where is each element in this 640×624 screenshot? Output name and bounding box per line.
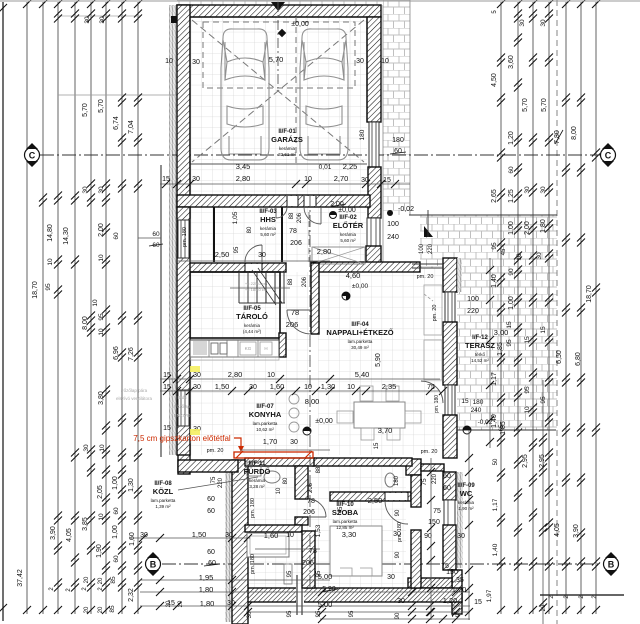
- svg-text:75: 75: [211, 476, 217, 483]
- svg-text:60: 60: [152, 231, 160, 238]
- strikethrough on superseded dims: [555, 130, 563, 144]
- low-sill glazing nappali north: [412, 263, 443, 265]
- wall: west exterior upper: [177, 5, 190, 218]
- svg-text:30: 30: [82, 186, 89, 194]
- svg-text:14,30: 14,30: [63, 227, 70, 245]
- door swing tárolo: [287, 310, 311, 334]
- sofa along east wall: [424, 285, 442, 335]
- svg-text:2,32: 2,32: [128, 588, 135, 602]
- left dimension strip lines: [26, 2, 28, 614]
- wall: fürdő east wall stub: [295, 517, 308, 525]
- svg-text:30: 30: [290, 439, 298, 446]
- wall: fürdő east wall upper: [295, 466, 308, 499]
- svg-text:220: 220: [432, 473, 438, 484]
- svg-text:5,90: 5,90: [375, 353, 382, 367]
- svg-text:5,70: 5,70: [98, 99, 105, 113]
- svg-text:15: 15: [461, 398, 469, 405]
- terrace bottom edge: [457, 429, 556, 431]
- svg-text:5,70: 5,70: [541, 98, 548, 112]
- svg-text:-0,02: -0,02: [398, 206, 414, 213]
- svg-text:95: 95: [287, 570, 293, 577]
- red leader arrow: [234, 438, 241, 446]
- red highlighted wall: [234, 452, 313, 458]
- eave overhang line left: [160, 165, 162, 457]
- yellow highlight marks: [190, 366, 200, 372]
- svg-text:Bubi: Bubi: [177, 395, 186, 400]
- svg-text:1,60: 1,60: [270, 382, 285, 391]
- dining table: [354, 402, 405, 428]
- svg-text:30: 30: [140, 532, 148, 539]
- svg-text:Főzőlap: Főzőlap: [174, 404, 191, 409]
- svg-text:3,90: 3,90: [573, 524, 580, 538]
- window: nappali east (100/220): [445, 292, 455, 322]
- svg-text:SZOBA: SZOBA: [332, 508, 359, 517]
- svg-text:4,50: 4,50: [491, 73, 498, 87]
- wall: szoba/wc divider lower: [411, 530, 421, 588]
- wall: lower divider wall: [302, 531, 315, 588]
- section line C-C: [40, 154, 602, 156]
- svg-text:14,52 m²: 14,52 m²: [471, 358, 489, 363]
- exterior paving brick textures: [383, 0, 410, 215]
- svg-text:10: 10: [516, 253, 523, 261]
- garage diagonal dashed cross: [192, 20, 364, 162]
- wall: fürdő north (gipszkarton): [313, 458, 412, 466]
- window: wc east: [444, 500, 455, 525]
- svg-text:95: 95: [316, 570, 322, 577]
- wall: east exterior beside wc: [443, 472, 456, 500]
- vertical dim chain east of wc: [468, 430, 470, 620]
- leader line közl label: [178, 477, 258, 490]
- wall: east exterior at wc level: [443, 415, 457, 458]
- svg-text:C: C: [29, 151, 36, 161]
- door gap szoba north wall: [385, 493, 408, 500]
- svg-text:14,80: 14,80: [47, 224, 54, 242]
- svg-text:85: 85: [109, 605, 116, 613]
- svg-text:8,00: 8,00: [571, 126, 578, 140]
- garage door dashed projection: [203, 22, 355, 88]
- svg-text:75: 75: [427, 384, 435, 391]
- svg-text:180: 180: [394, 475, 400, 486]
- garage interior inner line: [190, 16, 367, 18]
- svg-text:30: 30: [397, 598, 405, 605]
- svg-text:6,50: 6,50: [556, 350, 563, 364]
- svg-text:100: 100: [387, 221, 399, 228]
- svg-text:80: 80: [283, 477, 289, 484]
- svg-text:88: 88: [289, 212, 295, 219]
- svg-text:150: 150: [446, 569, 458, 576]
- svg-text:10: 10: [47, 258, 54, 266]
- appliance boxes KG H: [240, 342, 256, 355]
- wall: east exterior bottom stub: [452, 570, 462, 614]
- svg-text:10: 10: [304, 384, 312, 391]
- svg-text:pm. 180: pm. 180: [434, 395, 440, 413]
- svg-text:B: B: [608, 560, 615, 570]
- svg-text:5,70: 5,70: [269, 55, 284, 64]
- svg-text:lam.parketta: lam.parketta: [151, 498, 176, 503]
- svg-text:pm. 180: pm. 180: [182, 227, 188, 247]
- svg-text:180: 180: [473, 399, 484, 406]
- svg-text:2,95: 2,95: [539, 454, 546, 468]
- garage centre dashed line: [295, 17, 297, 165]
- konyha level half-circle marker: [303, 427, 311, 435]
- wall: konyha west pier: [178, 444, 190, 474]
- svg-text:60: 60: [207, 549, 215, 556]
- wall: konyha east pier: [279, 333, 286, 357]
- svg-text:60: 60: [113, 555, 120, 563]
- svg-text:1,85: 1,85: [500, 421, 507, 435]
- svg-text:37,42: 37,42: [17, 569, 24, 587]
- svg-text:kerámia: kerámia: [458, 500, 475, 505]
- svg-text:10: 10: [92, 299, 99, 307]
- svg-text:30: 30: [540, 186, 547, 194]
- section bubble B right: [604, 552, 619, 576]
- svg-text:pm. 180: pm. 180: [250, 554, 256, 574]
- svg-text:15: 15: [374, 442, 380, 449]
- svg-text:12,85 m²: 12,85 m²: [336, 525, 354, 530]
- window: nappali east (180/240): [445, 385, 455, 415]
- svg-text:1,80: 1,80: [199, 585, 214, 594]
- svg-text:3,85: 3,85: [82, 517, 89, 531]
- svg-text:95: 95: [349, 610, 355, 617]
- svg-text:KONYHA: KONYHA: [249, 410, 282, 419]
- svg-text:5,60 m²: 5,60 m²: [340, 238, 356, 243]
- svg-text:60: 60: [508, 166, 515, 174]
- svg-text:5,40: 5,40: [355, 370, 370, 379]
- svg-text:3,30: 3,30: [342, 530, 357, 539]
- svg-text:kerámia: kerámia: [340, 232, 357, 237]
- wall: tárolo/nappali divider: [311, 263, 319, 334]
- wall: west exterior mid: [177, 207, 190, 455]
- svg-text:10: 10: [347, 384, 355, 391]
- svg-text:30: 30: [98, 186, 105, 194]
- door openings in middle wall: [287, 196, 298, 206]
- svg-text:15: 15: [163, 372, 171, 379]
- svg-text:10: 10: [98, 513, 105, 521]
- window: garage east wall: [369, 122, 379, 167]
- svg-text:60: 60: [208, 560, 216, 567]
- svg-text:pm. 180: pm. 180: [250, 498, 256, 518]
- svg-text:±0,00: ±0,00: [315, 418, 333, 425]
- svg-text:1,90: 1,90: [96, 544, 103, 558]
- svg-text:30: 30: [83, 444, 90, 452]
- svg-text:+= 225,0 cm: += 225,0 cm: [245, 281, 268, 286]
- svg-text:85: 85: [110, 576, 117, 584]
- dashed jamb line előtér entry: [308, 212, 310, 262]
- vertical dim chain at wc: [430, 458, 432, 620]
- svg-text:10: 10: [98, 254, 105, 262]
- red slash marks on bar: [236, 451, 312, 458]
- svg-text:5,70: 5,70: [522, 98, 529, 112]
- svg-text:90: 90: [395, 509, 401, 516]
- svg-text:5,00: 5,00: [318, 600, 333, 609]
- svg-text:78: 78: [307, 498, 315, 505]
- svg-text:30: 30: [192, 176, 200, 183]
- svg-text:15: 15: [163, 425, 171, 432]
- svg-text:2,50: 2,50: [215, 250, 230, 259]
- svg-text:30: 30: [249, 384, 257, 391]
- svg-text:30: 30: [387, 574, 395, 581]
- kitchen counter row: [190, 340, 279, 357]
- vertical reference dash-dot line: [309, 195, 311, 590]
- wall: east exterior lower: [443, 525, 456, 570]
- left border line: [2, 2, 4, 621]
- svg-text:2,65: 2,65: [491, 189, 498, 203]
- dish rack lines: [193, 341, 207, 343]
- svg-text:0,01: 0,01: [319, 164, 332, 171]
- dimension row lines: [160, 183, 410, 185]
- level marker diamond entry: [387, 210, 393, 216]
- svg-text:4,60: 4,60: [346, 271, 361, 280]
- svg-text:2,50: 2,50: [368, 496, 383, 505]
- svg-text:60: 60: [443, 485, 451, 492]
- svg-text:8,00: 8,00: [305, 397, 320, 406]
- svg-text:1,30: 1,30: [321, 382, 336, 391]
- level marker terrace: [463, 426, 471, 434]
- sink double basin: [211, 343, 218, 354]
- wall: middle interior wall (garage front): [177, 195, 370, 207]
- dim row 549: [255, 548, 320, 550]
- wall: wc north-west pier: [406, 459, 421, 475]
- svg-text:50: 50: [493, 458, 499, 465]
- svg-text:206: 206: [297, 212, 303, 223]
- svg-text:18,70: 18,70: [32, 281, 39, 299]
- svg-text:TERASZ: TERASZ: [465, 341, 495, 350]
- svg-text:1,39 m²: 1,39 m²: [155, 504, 171, 509]
- bar stool circles: [289, 394, 299, 404]
- svg-text:+= 185,0 cm: += 185,0 cm: [245, 287, 268, 292]
- svg-text:95: 95: [287, 610, 293, 617]
- svg-text:±0,00: ±0,00: [352, 283, 369, 290]
- svg-text:GARÁZS: GARÁZS: [271, 135, 303, 144]
- wall: east pier below front door: [366, 246, 381, 266]
- section bubble C left: [25, 143, 40, 167]
- svg-text:95: 95: [98, 313, 105, 321]
- svg-text:pm. 20: pm. 20: [417, 274, 434, 280]
- svg-text:180: 180: [359, 129, 366, 140]
- svg-text:NAPPALI+ÉTKEZŐ: NAPPALI+ÉTKEZŐ: [326, 328, 393, 337]
- bottom right frame line: [540, 594, 624, 596]
- svg-text:1,40: 1,40: [491, 274, 498, 288]
- svg-text:1,60: 1,60: [129, 532, 136, 546]
- svg-text:15: 15: [162, 176, 170, 183]
- wall: szoba/wc divider upper: [411, 475, 421, 507]
- svg-text:15: 15: [540, 326, 547, 334]
- svg-text:206: 206: [303, 509, 315, 516]
- svg-text:1,20: 1,20: [452, 585, 467, 594]
- svg-text:95: 95: [316, 610, 322, 617]
- door swing hhs south: [245, 245, 262, 262]
- interior tile/parquet grids: [190, 17, 367, 195]
- svg-text:206: 206: [302, 276, 308, 287]
- right strip dashed reference line: [556, 0, 558, 624]
- svg-text:206: 206: [290, 240, 302, 247]
- svg-text:75: 75: [421, 478, 428, 486]
- terrace top edge: [409, 214, 557, 216]
- svg-text:4,05: 4,05: [66, 528, 73, 542]
- svg-text:1,00: 1,00: [508, 296, 515, 310]
- insulation strip left of wall: [169, 5, 177, 455]
- bathtub lower room: [247, 533, 289, 557]
- svg-text:1,95: 1,95: [199, 573, 214, 582]
- svg-text:20: 20: [98, 606, 104, 613]
- wall: west exterior lower: [232, 460, 248, 624]
- svg-text:60: 60: [207, 508, 215, 515]
- window: west wall at konyha: [178, 390, 189, 426]
- svg-text:4,05: 4,05: [554, 523, 561, 537]
- svg-text:1,30: 1,30: [128, 478, 135, 492]
- svg-text:1,40: 1,40: [492, 543, 499, 556]
- svg-text:elszívó ventilátora: elszívó ventilátora: [116, 396, 153, 401]
- level marker diamond nappali: [342, 292, 350, 300]
- right strip tick marks: [497, 0, 505, 8]
- svg-text:75: 75: [433, 508, 441, 515]
- svg-text:5,70: 5,70: [82, 103, 89, 117]
- washing machine: [247, 462, 261, 476]
- svg-text:95: 95: [524, 386, 531, 394]
- svg-text:90: 90: [508, 268, 515, 276]
- svg-text:térkő: térkő: [475, 352, 486, 357]
- wall: garage east exterior: [367, 17, 381, 122]
- svg-text:60: 60: [207, 496, 215, 503]
- wall: nappali east exterior upper: [443, 258, 457, 292]
- svg-text:lam.parketta: lam.parketta: [333, 519, 358, 524]
- svg-text:30: 30: [356, 58, 364, 65]
- svg-text:H: H: [264, 346, 267, 351]
- wall: előtér south wall: [311, 262, 420, 272]
- svg-text:±0,00: ±0,00: [291, 21, 309, 28]
- svg-text:1,70: 1,70: [263, 437, 278, 446]
- vertical dim chain terrace: [489, 258, 491, 448]
- car 2 in garage: [300, 29, 348, 160]
- svg-text:2,05: 2,05: [97, 485, 104, 499]
- svg-text:15: 15: [167, 600, 175, 607]
- svg-text:30: 30: [193, 384, 201, 391]
- door swing szoba: [385, 501, 408, 524]
- svg-text:kerámia: kerámia: [279, 146, 296, 151]
- svg-text:30: 30: [192, 59, 200, 66]
- svg-text:10: 10: [276, 487, 282, 494]
- wall: garage north exterior: [177, 5, 381, 17]
- svg-text:30: 30: [540, 19, 547, 27]
- right dimension strip lines: [500, 2, 502, 614]
- svg-text:78: 78: [291, 308, 299, 317]
- svg-text:30: 30: [361, 177, 369, 184]
- svg-text:20: 20: [84, 606, 90, 613]
- svg-text:20: 20: [541, 604, 547, 611]
- svg-text:240: 240: [387, 234, 399, 241]
- svg-text:1,00: 1,00: [508, 221, 515, 235]
- section line B-B: [162, 563, 602, 565]
- svg-text:30: 30: [225, 532, 233, 539]
- svg-text:1,20: 1,20: [443, 596, 458, 605]
- svg-text:10: 10: [304, 176, 312, 183]
- svg-text:220: 220: [467, 308, 479, 315]
- svg-text:240: 240: [471, 407, 482, 414]
- wall: hhs/tárolo divider: [186, 263, 286, 272]
- svg-text:8,00: 8,00: [82, 316, 89, 330]
- svg-text:6,74: 6,74: [113, 116, 120, 130]
- svg-text:95: 95: [234, 246, 240, 253]
- svg-text:pm. 180: pm. 180: [397, 522, 403, 542]
- svg-text:kerámia: kerámia: [260, 226, 277, 231]
- svg-text:1,17: 1,17: [491, 372, 498, 386]
- front door opening east: [367, 218, 380, 246]
- svg-text:2,95: 2,95: [522, 454, 529, 468]
- svg-text:(4,44 m²): (4,44 m²): [243, 329, 262, 334]
- door swing előtér entry: [304, 207, 321, 224]
- svg-text:10: 10: [286, 532, 294, 539]
- svg-text:3,80: 3,80: [98, 391, 105, 405]
- small fixture: [284, 564, 292, 584]
- svg-text:7,04: 7,04: [128, 120, 135, 134]
- wall: fürdő north west part: [245, 458, 314, 466]
- door gap fürdő east: [295, 498, 308, 500]
- svg-text:3,00: 3,00: [494, 328, 509, 337]
- svg-text:B: B: [150, 560, 157, 570]
- svg-text:60: 60: [443, 473, 451, 480]
- svg-text:30: 30: [84, 16, 91, 24]
- dimension row ticks: [162, 180, 170, 188]
- svg-text:7,26: 7,26: [128, 347, 135, 361]
- svg-text:KG: KG: [245, 346, 252, 351]
- svg-text:30: 30: [457, 533, 465, 540]
- svg-text:2,00: 2,00: [98, 223, 105, 237]
- north arrow triangle top: [271, 2, 285, 11]
- svg-text:1,00: 1,00: [112, 476, 119, 490]
- svg-text:6,80: 6,80: [575, 352, 582, 366]
- svg-text:5,60 m²: 5,60 m²: [260, 232, 276, 237]
- svg-text:±0,00: ±0,00: [338, 207, 356, 214]
- car 1 in garage: [221, 29, 269, 160]
- svg-text:kerámia: kerámia: [249, 478, 266, 483]
- faint extension line garage side: [58, 94, 177, 96]
- svg-text:80: 80: [247, 226, 253, 233]
- svg-text:3,90: 3,90: [50, 526, 57, 540]
- svg-text:1,17: 1,17: [492, 498, 499, 511]
- svg-text:3,60: 3,60: [508, 55, 515, 69]
- svg-text:pm. 20: pm. 20: [207, 448, 224, 454]
- wall: wc north wall: [421, 464, 444, 471]
- svg-text:3,28 m²: 3,28 m²: [249, 484, 265, 489]
- wall: south exterior heavy band: [233, 588, 462, 602]
- svg-text:10: 10: [165, 58, 173, 65]
- terrace door swing: [421, 381, 443, 403]
- svg-text:2,35: 2,35: [382, 382, 397, 391]
- svg-text:95: 95: [45, 283, 52, 291]
- svg-text:1,97: 1,97: [486, 589, 493, 602]
- wall: közl north wall: [178, 460, 238, 472]
- svg-text:10,62 m²: 10,62 m²: [256, 427, 274, 432]
- door swing hhs (from garage): [276, 207, 287, 218]
- svg-text:60: 60: [113, 507, 120, 515]
- svg-text:100: 100: [467, 296, 479, 303]
- svg-text:FÜRDŐ: FÜRDŐ: [244, 467, 271, 476]
- svg-text:3,70: 3,70: [378, 426, 393, 435]
- svg-text:15: 15: [163, 384, 171, 391]
- svg-text:6,96: 6,96: [113, 346, 120, 360]
- svg-text:pm. 20: pm. 20: [432, 305, 438, 322]
- svg-text:32,61 m²: 32,61 m²: [278, 152, 296, 157]
- svg-text:1,90 m²: 1,90 m²: [458, 506, 474, 511]
- svg-text:1,50: 1,50: [192, 530, 207, 539]
- svg-text:20: 20: [98, 577, 104, 584]
- corner marker block: [171, 16, 177, 23]
- svg-text:88: 88: [288, 278, 294, 285]
- svg-text:30: 30: [99, 16, 106, 24]
- svg-text:95: 95: [491, 242, 498, 250]
- svg-text:kerámia: kerámia: [244, 323, 261, 328]
- svg-text:1,20: 1,20: [508, 131, 515, 145]
